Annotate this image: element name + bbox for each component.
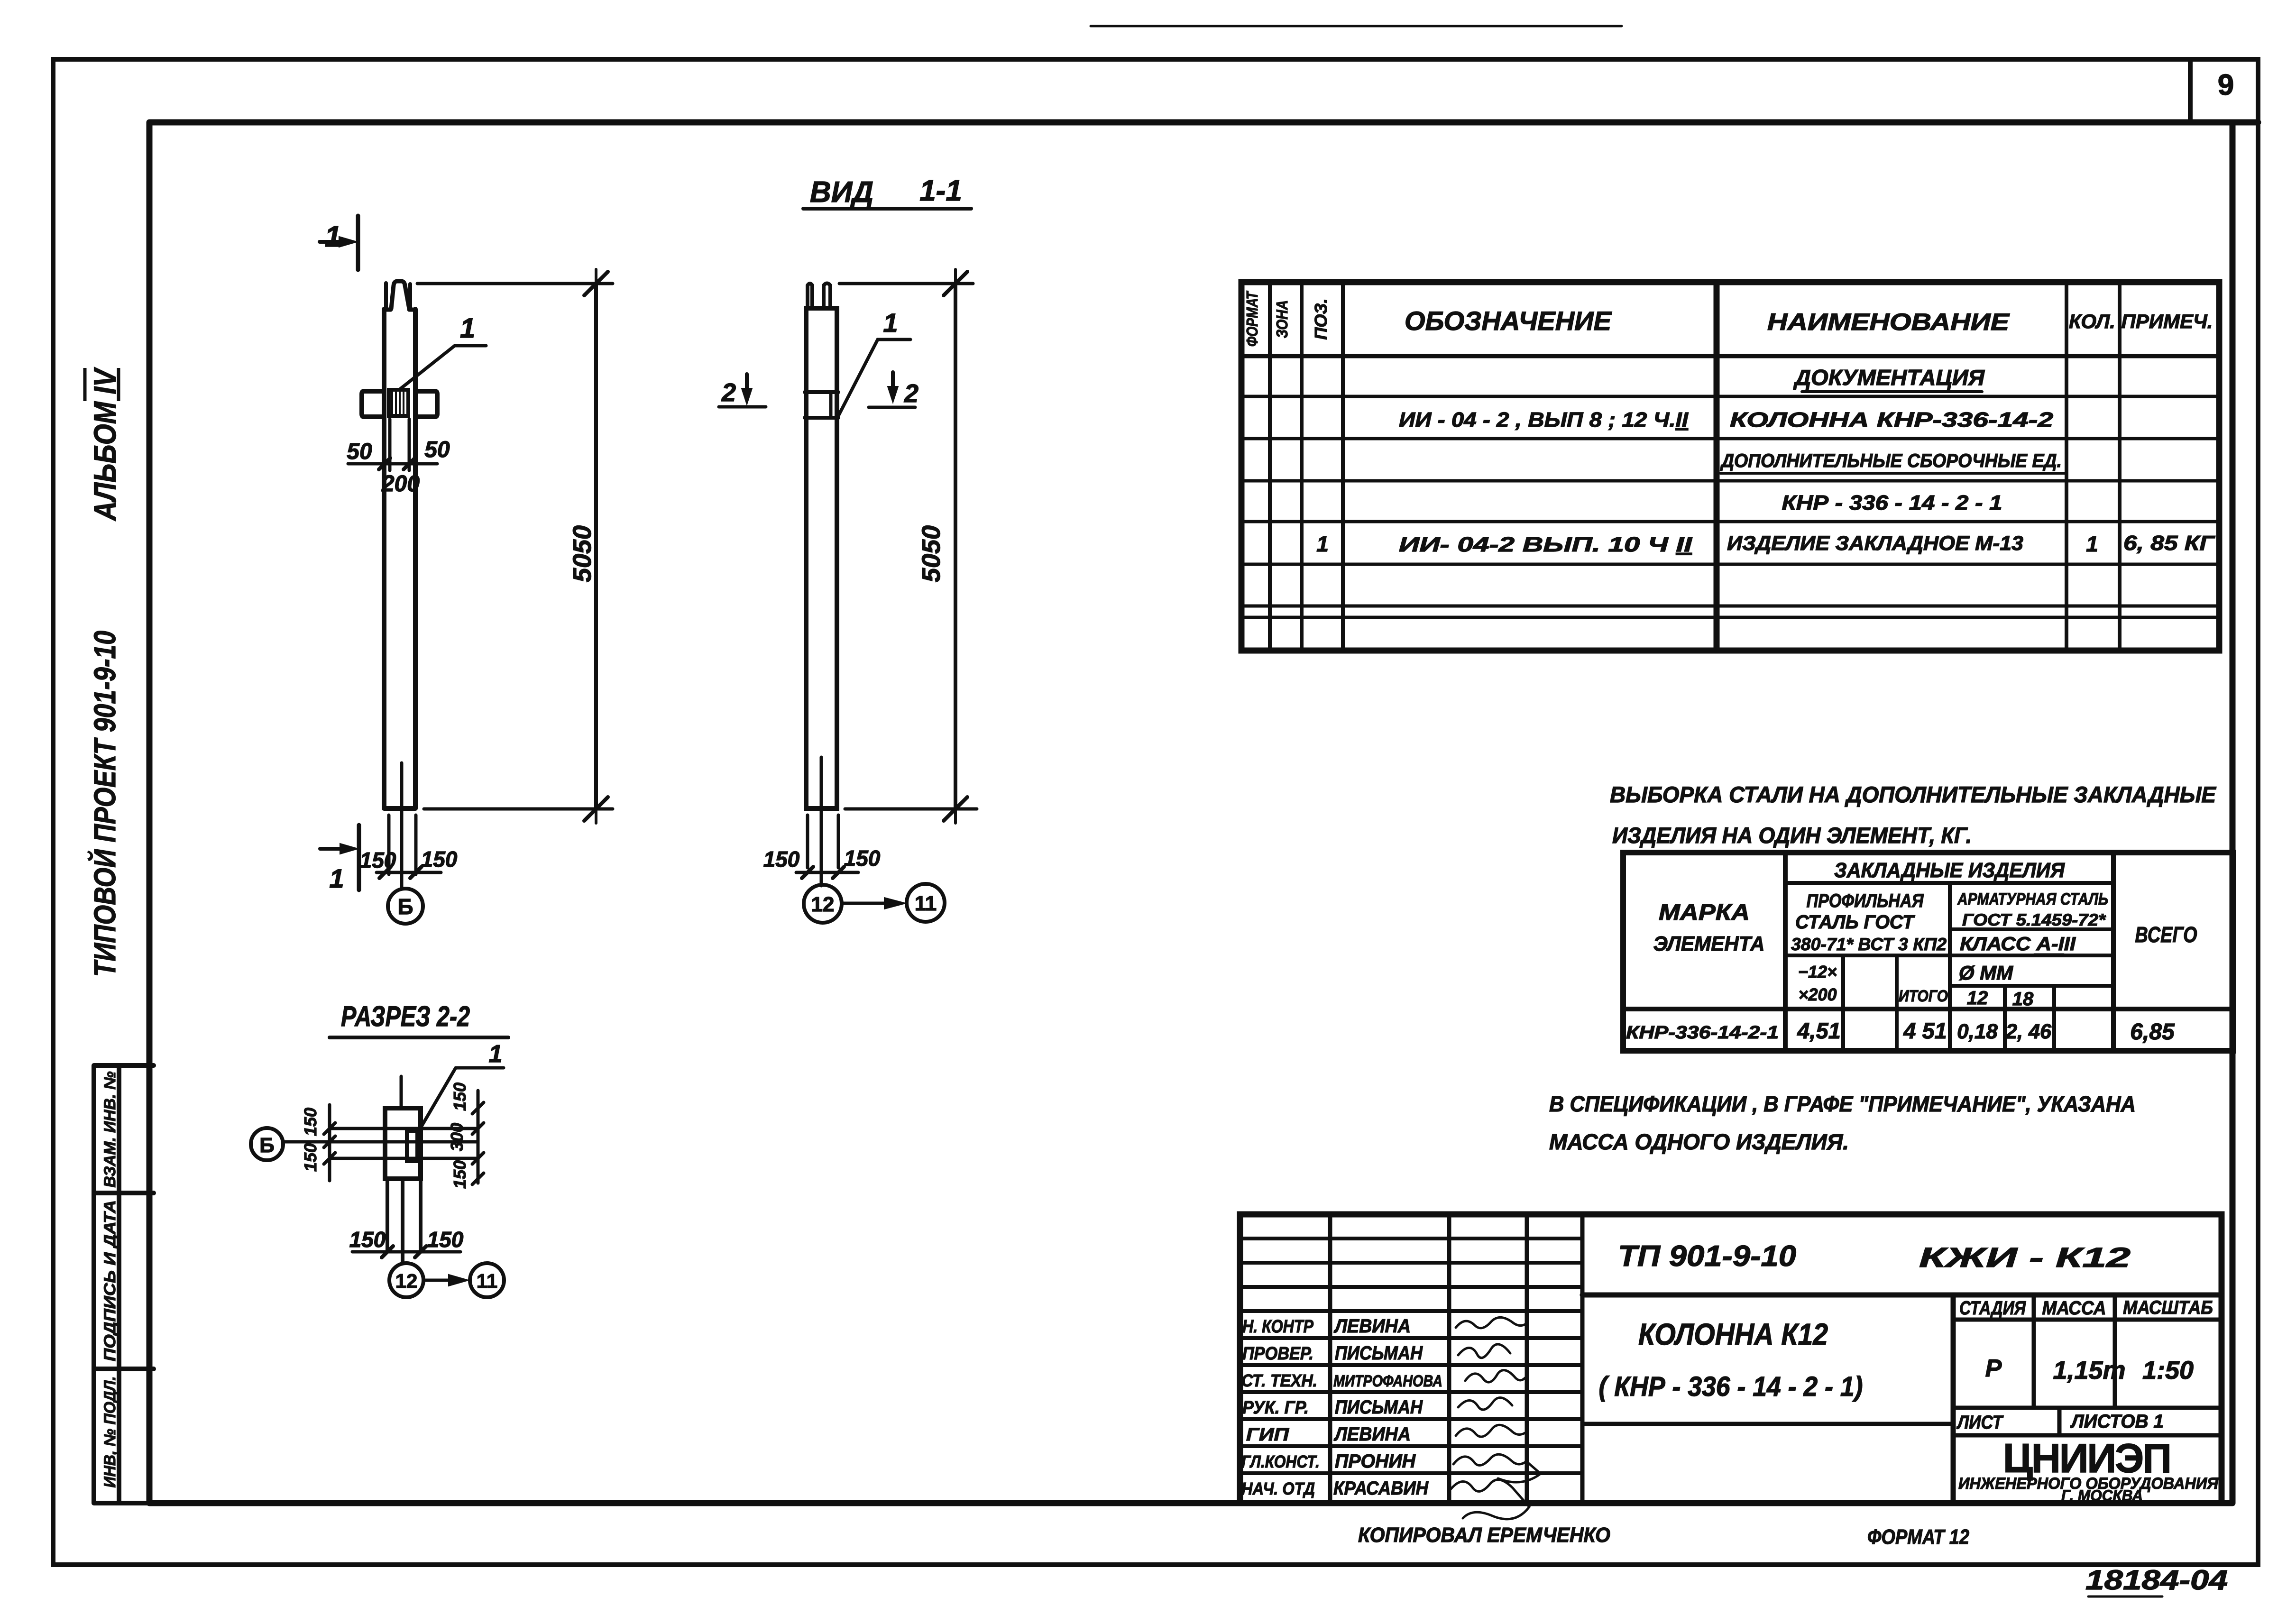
svg-text:МИТРОФАНОВА: МИТРОФАНОВА xyxy=(1333,1372,1442,1390)
bottom extension lines xyxy=(389,815,416,874)
svg-text:ИИ - 04 - 2 , ВЫП 8 ; 12 Ч.II: ИИ - 04 - 2 , ВЫП 8 ; 12 Ч.II xyxy=(1399,408,1689,431)
svg-text:ПОЗ.: ПОЗ. xyxy=(1311,298,1331,339)
right dimension line 150/300/150 xyxy=(472,1091,484,1184)
svg-text:ИЗДЕЛИЯ НА ОДИН ЭЛЕМЕНТ,: ИЗДЕЛИЯ НА ОДИН ЭЛЕМЕНТ, КГ. xyxy=(1612,823,1972,848)
svg-text:12: 12 xyxy=(1967,988,1988,1009)
svg-text:2, 46: 2, 46 xyxy=(2005,1020,2051,1043)
left dimension line 150/150 xyxy=(324,1105,335,1181)
svg-text:Г. МОСКВА: Г. МОСКВА xyxy=(2061,1487,2143,1504)
svg-text:ФОРМАТ: ФОРМАТ xyxy=(1243,291,1261,347)
svg-text:МАССА: МАССА xyxy=(2042,1298,2106,1319)
grid mark 12 (section) xyxy=(389,1263,423,1297)
axis line xyxy=(820,757,823,886)
svg-text:1: 1 xyxy=(460,313,475,344)
signatures xyxy=(1451,1317,1541,1519)
inner drawing frame xyxy=(149,122,2258,1503)
svg-text:ПРИМЕЧ.: ПРИМЕЧ. xyxy=(2122,310,2213,332)
svg-text:ЛИСТОВ 1: ЛИСТОВ 1 xyxy=(2070,1411,2164,1432)
column K12 body edges xyxy=(384,309,415,808)
svg-text:ЛЕВИНА: ЛЕВИНА xyxy=(1333,1316,1411,1337)
column cross-section xyxy=(385,1108,421,1179)
svg-text:2: 2 xyxy=(721,378,736,407)
svg-text:ЗОНА: ЗОНА xyxy=(1273,300,1291,338)
svg-text:150: 150 xyxy=(763,847,800,872)
grid mark 11 xyxy=(907,884,945,922)
dimension 150|150 (view 1 bottom) xyxy=(377,867,441,878)
svg-text:18184-04: 18184-04 xyxy=(2085,1565,2228,1596)
svg-text:×200: ×200 xyxy=(1798,985,1837,1004)
embedded plate in section xyxy=(407,1131,417,1161)
dimension 50|50 with 200 xyxy=(348,458,437,469)
svg-text:5050: 5050 xyxy=(568,525,597,582)
svg-text:2: 2 xyxy=(904,379,918,408)
svg-text:12: 12 xyxy=(811,893,835,916)
svg-text:В СПЕЦИФИКАЦИИ , В ГРАФЕ "ПРИМ: В СПЕЦИФИКАЦИИ , В ГРАФЕ "ПРИМЕЧАНИЕ", У… xyxy=(1549,1092,2136,1116)
arrow 12 to 11 xyxy=(843,898,906,909)
svg-text:ИНВ, № ПОДЛ.: ИНВ, № ПОДЛ. xyxy=(101,1376,119,1488)
svg-text:КОПИРОВАЛ ЕРЕМЧЕНКО: КОПИРОВАЛ ЕРЕМЧЕНКО xyxy=(1358,1523,1610,1547)
section mark 1 (bottom) xyxy=(320,825,359,890)
svg-text:11: 11 xyxy=(477,1270,497,1292)
svg-text:СТ. ТЕХН.: СТ. ТЕХН. xyxy=(1241,1371,1317,1390)
svg-text:( КНР - 336 - 14 - 2 - 1): ( КНР - 336 - 14 - 2 - 1) xyxy=(1599,1371,1863,1402)
svg-text:5050: 5050 xyxy=(917,525,946,582)
spec table header line xyxy=(1241,354,2219,358)
svg-text:ТИПОВОЙ ПРОЕКТ 901-9-10: ТИПОВОЙ ПРОЕКТ 901-9-10 xyxy=(87,631,122,977)
svg-text:150: 150 xyxy=(349,1227,386,1252)
dimension 150|150 (section bottom) xyxy=(352,1246,460,1257)
svg-text:ПРОВЕР.: ПРОВЕР. xyxy=(1242,1344,1313,1364)
spec table row lines xyxy=(1241,396,2219,617)
title block outline xyxy=(1240,1214,2222,1503)
svg-text:ДОПОЛНИТЕЛЬНЫЕ СБОРОЧНЫЕ ЕД.: ДОПОЛНИТЕЛЬНЫЕ СБОРОЧНЫЕ ЕД. xyxy=(1720,450,2062,471)
leader line to plate, item 1 xyxy=(400,346,486,389)
svg-text:150: 150 xyxy=(360,848,396,872)
steel table outline xyxy=(1623,853,2233,1051)
svg-text:1:50: 1:50 xyxy=(2142,1356,2194,1385)
spec table outline xyxy=(1241,282,2219,651)
svg-text:1-1: 1-1 xyxy=(919,174,962,207)
svg-text:−12×: −12× xyxy=(1798,962,1837,982)
corbel edge lines across column xyxy=(805,392,838,418)
steel table verticals xyxy=(1785,853,2113,1051)
svg-text:1: 1 xyxy=(489,1040,503,1068)
column axis line xyxy=(400,763,404,888)
svg-text:Ø ММ: Ø ММ xyxy=(1959,962,2013,984)
title block right structure xyxy=(1582,1293,2222,1298)
title block left rows xyxy=(1240,1239,1582,1473)
column body side view xyxy=(806,308,837,808)
svg-text:ЗАКЛАДНЫЕ ИЗДЕЛИЯ: ЗАКЛАДНЫЕ ИЗДЕЛИЯ xyxy=(1834,859,2065,882)
svg-text:150: 150 xyxy=(450,1160,469,1189)
spec table column lines xyxy=(1270,282,2120,651)
svg-text:КОЛОННА КНР-336-14-2: КОЛОННА КНР-336-14-2 xyxy=(1730,408,2054,431)
svg-text:ЛИСТ: ЛИСТ xyxy=(1956,1412,2004,1433)
svg-text:ПИСЬМАН: ПИСЬМАН xyxy=(1335,1397,1423,1418)
axis above section xyxy=(400,1076,403,1108)
bottom extension lines (view 2) xyxy=(808,815,838,868)
svg-text:Б: Б xyxy=(397,894,413,919)
svg-text:ПИСЬМАН: ПИСЬМАН xyxy=(1335,1343,1423,1364)
svg-text:18: 18 xyxy=(2012,989,2034,1009)
svg-text:ИТОГО: ИТОГО xyxy=(1899,987,1948,1005)
svg-text:4,51: 4,51 xyxy=(1797,1018,1840,1043)
hidden tenon lines xyxy=(390,419,409,470)
embedded plate M-13 xyxy=(389,390,408,416)
grid mark Б (view 1) xyxy=(388,889,423,924)
section mark 2 (left) xyxy=(719,374,766,407)
svg-text:50: 50 xyxy=(424,437,450,462)
column top edge xyxy=(384,308,415,312)
svg-text:НАИМЕНОВАНИЕ: НАИМЕНОВАНИЕ xyxy=(1767,309,2010,335)
svg-text:150: 150 xyxy=(450,1083,469,1111)
svg-text:ИЗДЕЛИЕ ЗАКЛАДНОЕ М-13: ИЗДЕЛИЕ ЗАКЛАДНОЕ М-13 xyxy=(1727,532,2023,555)
svg-text:150: 150 xyxy=(301,1143,320,1172)
steel table horizontals xyxy=(1785,883,2113,986)
svg-text:150: 150 xyxy=(427,1227,464,1252)
svg-text:50: 50 xyxy=(347,439,372,464)
svg-text:1: 1 xyxy=(883,308,898,338)
svg-text:380-71* ВСТ 3 КП2: 380-71* ВСТ 3 КП2 xyxy=(1791,935,1947,954)
svg-text:КНР-336-14-2-1: КНР-336-14-2-1 xyxy=(1626,1023,1779,1043)
svg-text:1,15т: 1,15т xyxy=(2053,1356,2125,1385)
svg-text:СТАЛЬ ГОСТ: СТАЛЬ ГОСТ xyxy=(1795,912,1916,933)
svg-text:КОЛ.: КОЛ. xyxy=(2069,310,2115,332)
svg-text:6, 85 КГ: 6, 85 КГ xyxy=(2123,532,2215,555)
embedded plate edge xyxy=(829,394,833,416)
dimension 5050 (view 1) xyxy=(417,269,613,823)
title block left verticals xyxy=(1330,1214,1582,1503)
svg-text:150: 150 xyxy=(301,1108,320,1136)
svg-text:11: 11 xyxy=(915,892,937,915)
grid mark 11 (section) xyxy=(470,1263,504,1297)
svg-text:ВЗАМ. ИНВ. №: ВЗАМ. ИНВ. № xyxy=(101,1071,119,1187)
grid mark Б (section) xyxy=(251,1128,283,1160)
svg-text:ГИП: ГИП xyxy=(1246,1425,1289,1445)
dimension 150|150 (view 2 bottom) xyxy=(796,867,858,878)
svg-text:ВИД: ВИД xyxy=(810,176,873,209)
svg-text:РАЗРЕЗ 2-2: РАЗРЕЗ 2-2 xyxy=(341,1000,470,1032)
svg-text:12: 12 xyxy=(395,1270,418,1292)
svg-text:Н. КОНТР: Н. КОНТР xyxy=(1242,1317,1314,1337)
svg-text:КЛАСС А-III: КЛАСС А-III xyxy=(1960,934,2076,954)
svg-text:300: 300 xyxy=(447,1123,467,1151)
svg-text:ИИ- 04-2 ВЫП. 10 Ч II: ИИ- 04-2 ВЫП. 10 Ч II xyxy=(1399,533,1692,556)
svg-text:4 51: 4 51 xyxy=(1903,1018,1947,1043)
svg-text:Р: Р xyxy=(1985,1355,2002,1382)
svg-text:ПРОНИН: ПРОНИН xyxy=(1335,1451,1416,1472)
svg-text:МАСШТАБ: МАСШТАБ xyxy=(2123,1297,2213,1318)
arrow 12 to 11 (section) xyxy=(424,1275,468,1286)
svg-text:ВСЕГО: ВСЕГО xyxy=(2135,922,2197,947)
sheet number box xyxy=(2188,59,2193,122)
svg-text:КНР - 336 - 14 - 2 - 1: КНР - 336 - 14 - 2 - 1 xyxy=(1782,491,2002,514)
leader line item 1 (view 2) xyxy=(838,339,910,416)
svg-text:ВЫБОРКА СТАЛИ НА ДОПОЛНИТЕЛЬ: ВЫБОРКА СТАЛИ НА ДОПОЛНИТЕЛЬНЫЕ ЗАКЛАДНЫ… xyxy=(1610,782,2217,807)
top rebar pins xyxy=(386,283,410,309)
grid mark 12 xyxy=(804,885,842,923)
svg-text:КЖИ - К12: КЖИ - К12 xyxy=(1919,1242,2131,1273)
svg-text:РУК. ГР.: РУК. ГР. xyxy=(1242,1398,1309,1418)
verticals below section xyxy=(387,1179,421,1263)
svg-text:ФОРМАТ 12: ФОРМАТ 12 xyxy=(1867,1525,1969,1549)
svg-text:ГЛ.КОНСТ.: ГЛ.КОНСТ. xyxy=(1241,1452,1320,1471)
svg-text:6,85: 6,85 xyxy=(2130,1019,2175,1045)
girder lines through section xyxy=(330,1127,478,1130)
scan edge dash top xyxy=(1091,25,1622,28)
svg-text:1: 1 xyxy=(2086,532,2098,556)
svg-text:ОБОЗНАЧЕНИЕ: ОБОЗНАЧЕНИЕ xyxy=(1405,306,1612,336)
svg-text:ЭЛЕМЕНТА: ЭЛЕМЕНТА xyxy=(1653,932,1765,955)
svg-text:НАЧ. ОТД: НАЧ. ОТД xyxy=(1241,1479,1315,1498)
svg-text:ТП 901-9-10: ТП 901-9-10 xyxy=(1618,1240,1796,1273)
leader line item 1 (section) xyxy=(420,1068,504,1129)
svg-text:200: 200 xyxy=(381,471,420,496)
svg-text:КРАСАВИН: КРАСАВИН xyxy=(1333,1478,1429,1499)
svg-text:1: 1 xyxy=(325,220,341,253)
svg-text:ГОСТ 5.1459-72*: ГОСТ 5.1459-72* xyxy=(1962,911,2106,929)
svg-text:1: 1 xyxy=(1316,532,1329,556)
svg-text:ПРОФИЛЬНАЯ: ПРОФИЛЬНАЯ xyxy=(1807,890,1924,911)
svg-text:ПОДПИСЬ И ДАТА: ПОДПИСЬ И ДАТА xyxy=(101,1200,119,1361)
svg-text:0,18: 0,18 xyxy=(1957,1020,1998,1043)
left sidebar stamp boxes xyxy=(94,1065,154,1503)
corbel console xyxy=(362,391,437,417)
svg-text:ЛЕВИНА: ЛЕВИНА xyxy=(1333,1424,1411,1445)
section mark 1 (top) xyxy=(320,216,358,270)
svg-text:МАРКА: МАРКА xyxy=(1659,900,1750,925)
svg-text:АРМАТУРНАЯ СТАЛЬ: АРМАТУРНАЯ СТАЛЬ xyxy=(1957,890,2108,908)
svg-text:ДОКУМЕНТАЦИЯ: ДОКУМЕНТАЦИЯ xyxy=(1793,365,1985,390)
top tenon xyxy=(391,281,409,309)
svg-text:150: 150 xyxy=(844,846,881,871)
svg-text:СТАДИЯ: СТАДИЯ xyxy=(1959,1298,2026,1319)
top rebar pins side xyxy=(808,284,830,309)
svg-text:1: 1 xyxy=(329,863,344,893)
svg-text:9: 9 xyxy=(2218,69,2234,101)
dimension 5050 (view 2) xyxy=(839,269,977,823)
svg-text:Б: Б xyxy=(259,1134,275,1157)
svg-text:МАССА ОДНОГО ИЗДЕЛИЯ.: МАССА ОДНОГО ИЗДЕЛИЯ. xyxy=(1549,1129,1849,1154)
section mark 2 (right) xyxy=(869,372,915,407)
svg-text:КОЛОННА К12: КОЛОННА К12 xyxy=(1638,1317,1828,1351)
svg-text:150: 150 xyxy=(421,847,458,872)
